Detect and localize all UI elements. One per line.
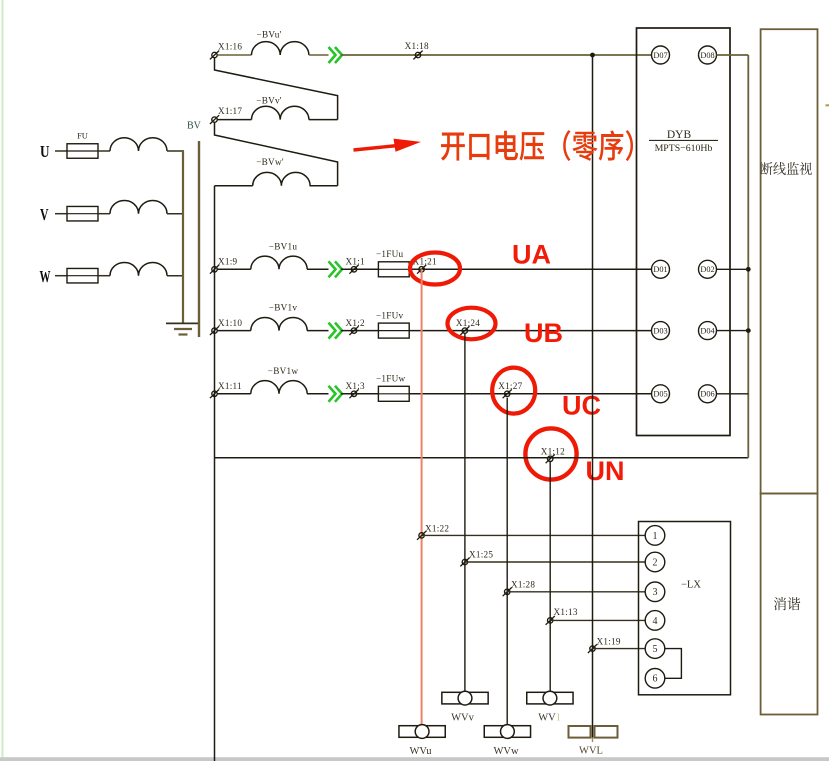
terminal LX 1 — [645, 526, 665, 546]
svg-text:4: 4 — [653, 616, 658, 627]
svg-text:UN: UN — [586, 456, 625, 486]
svg-text:−1FUv: −1FUv — [376, 310, 404, 320]
wire row2 coil right — [309, 119, 338, 121]
svg-text:X1:10: X1:10 — [218, 318, 242, 328]
svg-text:X1:25: X1:25 — [469, 550, 493, 560]
terminal X1:17 — [212, 117, 217, 122]
link chevron — [329, 386, 336, 402]
terminal D04 — [699, 322, 717, 340]
svg-text:l: l — [557, 713, 560, 724]
terminal D02 — [699, 260, 717, 278]
terminal D08 — [699, 46, 717, 64]
svg-text:D02: D02 — [700, 265, 714, 274]
svg-text:X1:27: X1:27 — [498, 381, 522, 391]
terminal LX 5 — [645, 639, 665, 659]
wire V to bus — [167, 213, 184, 215]
wire D04 link — [717, 330, 749, 332]
wire zigzag v-w — [215, 122, 338, 185]
svg-text:X1:9: X1:9 — [218, 257, 238, 267]
wire X1:28 to LX3 — [507, 591, 645, 593]
voltmeter WVu — [399, 726, 445, 738]
fuse V phase — [67, 206, 98, 221]
svg-text:WVu: WVu — [409, 746, 432, 757]
svg-text:FU: FU — [77, 131, 88, 141]
wire X1:25 to LX2 — [465, 561, 645, 563]
junction zero-seq tap — [590, 53, 595, 58]
transformer BV core — [198, 141, 200, 337]
label xiaoxie — [774, 597, 786, 610]
svg-text:−BVv': −BVv' — [256, 95, 282, 105]
terminal X1:19 — [590, 646, 595, 651]
svg-text:UA: UA — [512, 240, 551, 270]
terminal X1:1 — [351, 267, 356, 272]
highlight circle X1:12 — [525, 428, 576, 479]
svg-text:DYB: DYB — [667, 129, 692, 141]
svg-text:D05: D05 — [653, 390, 667, 399]
winding -BV1u — [251, 256, 307, 269]
svg-text:X1:1: X1:1 — [346, 257, 366, 267]
wire X1:22 to LX1 — [422, 534, 646, 536]
svg-text:UC: UC — [562, 391, 601, 421]
svg-text:6: 6 — [653, 674, 658, 685]
winding -BVv' — [252, 106, 309, 119]
wire X1:16 to coil — [218, 54, 252, 56]
terminal D07 — [652, 46, 670, 64]
svg-text:WVw: WVw — [493, 746, 518, 757]
svg-text:D07: D07 — [653, 51, 667, 60]
wire chevron to X1:3 — [341, 393, 378, 395]
svg-text:2: 2 — [653, 557, 658, 568]
fuse -1FUv — [378, 323, 409, 338]
svg-text:D01: D01 — [653, 265, 667, 274]
wire chevron to X1:1 — [341, 268, 378, 270]
box line-break monitor — [761, 29, 818, 493]
wire row1 coil to chevron — [309, 54, 329, 56]
annotation arrow — [354, 146, 399, 151]
terminal X1:21 — [419, 267, 424, 272]
voltmeter WVv — [442, 692, 488, 704]
wire jumper 5-6 — [665, 649, 682, 679]
junction D04 — [746, 328, 751, 333]
box harmonic eliminator — [761, 494, 818, 715]
wire UA drop (salmon) — [421, 269, 423, 728]
wire U fuse to coil — [98, 150, 110, 152]
winding -BV1v — [251, 317, 307, 330]
wire secondary bus — [215, 185, 253, 187]
fuse -1FUu — [378, 262, 409, 277]
svg-text:X1:13: X1:13 — [554, 607, 578, 617]
wire UC drop — [506, 398, 508, 726]
link chevron row1 — [329, 47, 336, 63]
svg-text:−1FUu: −1FUu — [376, 249, 404, 259]
fuse W phase — [67, 268, 98, 283]
wire X1:9 to coil — [218, 268, 251, 270]
terminal LX 3 — [645, 582, 665, 602]
wire chevron to X1:2 — [341, 330, 378, 332]
wire UN drop — [549, 461, 551, 693]
terminal D01 — [652, 260, 670, 278]
inductor U winding — [110, 138, 167, 151]
voltmeter WVw — [484, 726, 530, 738]
terminal D05 — [652, 385, 670, 403]
svg-text:D08: D08 — [700, 51, 714, 60]
svg-text:UB: UB — [524, 318, 563, 348]
wire fuse to DYB — [409, 330, 651, 332]
wire X1:19 to LX5 — [593, 648, 646, 650]
svg-text:X1:16: X1:16 — [218, 42, 242, 52]
device WVL — [569, 726, 591, 738]
svg-text:−1FUw: −1FUw — [376, 374, 406, 384]
terminal X1:13 — [548, 618, 553, 623]
svg-text:D04: D04 — [700, 326, 715, 335]
svg-text:−BVu': −BVu' — [257, 30, 282, 40]
wire fuse to DYB — [409, 393, 651, 395]
highlight circle X1:24 — [448, 308, 496, 340]
wire X1:17 to coil — [218, 119, 252, 121]
svg-text:1: 1 — [653, 531, 658, 542]
wire D02 link — [717, 268, 749, 270]
svg-text:D03: D03 — [653, 326, 667, 335]
svg-text:−BVw': −BVw' — [256, 157, 284, 167]
terminal D06 — [699, 385, 717, 403]
wire X1:11 to coil — [218, 393, 251, 395]
terminal X1:16 — [212, 52, 217, 57]
relay box DYB — [637, 28, 731, 436]
terminal LX 4 — [645, 611, 665, 631]
svg-text:BV: BV — [187, 121, 202, 132]
svg-text:−BV1v: −BV1v — [269, 303, 298, 313]
terminal X1:12 — [548, 456, 553, 461]
terminal X1:27 — [505, 391, 510, 396]
voltmeter WVl — [527, 692, 573, 704]
wire UN row — [215, 457, 749, 459]
wire W to bus — [167, 275, 184, 277]
terminal D03 — [652, 322, 670, 340]
terminal X1:24 — [462, 328, 467, 333]
highlight circle X1:27 — [492, 368, 535, 414]
inductor W winding — [110, 262, 167, 275]
terminal X1:10 — [212, 328, 217, 333]
terminal X1:11 — [212, 391, 217, 396]
svg-text:−LX: −LX — [681, 580, 701, 591]
inductor V winding — [110, 200, 167, 213]
svg-text:X1:24: X1:24 — [456, 318, 480, 328]
svg-text:X1:11: X1:11 — [218, 381, 242, 391]
svg-text:WV: WV — [538, 713, 556, 724]
wire UB drop — [464, 334, 466, 693]
link chevron — [329, 261, 336, 277]
annotation kaikou dianya (lingxu) — [441, 133, 465, 161]
terminal LX 6 — [645, 669, 665, 689]
wire coil to chevron — [307, 268, 329, 270]
wire fuse to DYB — [409, 268, 651, 270]
svg-text:X1:28: X1:28 — [511, 580, 535, 590]
wire X1:10 to coil — [218, 330, 251, 332]
terminal X1:28 — [505, 589, 510, 594]
link chevron — [329, 323, 336, 339]
wire U phase — [55, 150, 67, 152]
svg-text:W: W — [40, 267, 51, 286]
terminal X1:18 — [415, 52, 420, 57]
wire zigzag u-v — [215, 58, 338, 120]
svg-text:WVv: WVv — [451, 713, 474, 724]
svg-text:MPTS−610Hb: MPTS−610Hb — [655, 143, 713, 154]
terminal X1:9 — [212, 267, 217, 272]
svg-text:5: 5 — [653, 644, 658, 655]
wire coil to chevron — [307, 393, 329, 395]
svg-text:X1:12: X1:12 — [541, 447, 565, 457]
fuse FU — [67, 144, 98, 159]
fuse -1FUw — [378, 386, 409, 401]
svg-text:D06: D06 — [700, 390, 714, 399]
wire X1:13 to LX4 — [550, 619, 645, 621]
svg-text:X1:18: X1:18 — [405, 41, 429, 51]
ground — [166, 322, 198, 324]
svg-text:X1:2: X1:2 — [346, 318, 366, 328]
svg-text:X1:22: X1:22 — [425, 523, 449, 533]
terminal X1:22 — [419, 533, 424, 538]
terminal X1:25 — [462, 559, 467, 564]
wire D06 link — [717, 393, 749, 395]
wire coil to chevron — [307, 330, 329, 332]
wire U to bus — [167, 150, 184, 152]
terminal X1:2 — [351, 328, 356, 333]
wire V fuse to coil — [98, 213, 110, 215]
svg-text:−BV1u: −BV1u — [269, 241, 298, 251]
junction D02 — [746, 267, 751, 272]
wire W fuse to coil — [98, 275, 110, 277]
winding -BVw' — [253, 172, 310, 185]
wire row3 coil right — [310, 185, 338, 187]
wire zero-seq drop — [592, 55, 594, 738]
svg-text:U: U — [40, 142, 50, 161]
wire W phase — [55, 275, 67, 277]
wire D08 to right bus — [717, 54, 749, 56]
winding -BVu' — [252, 42, 309, 55]
svg-text:X1:3: X1:3 — [346, 381, 366, 391]
terminal X1:3 — [351, 391, 356, 396]
svg-text:X1:17: X1:17 — [218, 106, 242, 116]
wire V phase — [55, 213, 67, 215]
wire right bus — [747, 55, 749, 458]
label duanxian jianshi — [761, 162, 773, 175]
winding -BV1w — [251, 381, 307, 394]
svg-text:X1:19: X1:19 — [597, 636, 621, 646]
svg-text:V: V — [40, 205, 49, 224]
wire row1 to DYB — [341, 54, 652, 56]
wire primary bus — [182, 151, 184, 323]
svg-text:WVL: WVL — [579, 746, 603, 757]
terminal LX 2 — [645, 552, 665, 572]
terminal block -LX — [639, 522, 731, 695]
highlight circle X1:21 — [410, 253, 460, 285]
svg-text:3: 3 — [653, 587, 658, 598]
svg-text:−BV1w: −BV1w — [268, 366, 299, 376]
